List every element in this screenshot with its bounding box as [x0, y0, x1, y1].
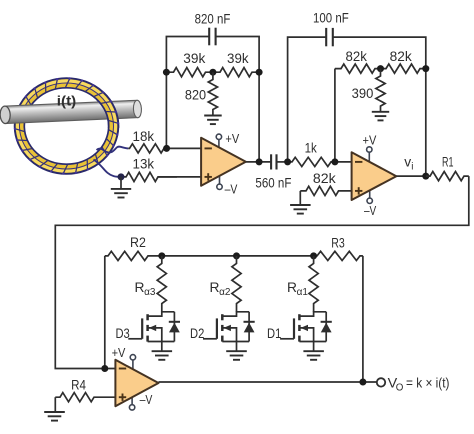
node: op3 inverting input	[101, 365, 108, 372]
op-amp U3 (output amplifier)	[115, 355, 158, 411]
resistor 820 (T-network shunt)	[208, 72, 217, 115]
svg-text:82k: 82k	[346, 49, 367, 64]
wire: box1 right vertical to op1 output node	[258, 72, 260, 162]
wire: op1 output to 560nF	[246, 161, 271, 163]
svg-text:–V: –V	[364, 203, 377, 218]
transistor D1 (MOSFET with body diode)	[280, 312, 332, 351]
resistor Rα1	[309, 256, 318, 312]
svg-text:82k: 82k	[313, 171, 336, 186]
resistor 18k	[128, 144, 166, 153]
node: output junction	[359, 379, 366, 386]
wire: op2 output to v_i node	[396, 175, 426, 177]
terminal: output Vo	[377, 378, 385, 386]
resistor R1	[426, 172, 469, 181]
wire: coil lead to 13k / ground node (blue)	[94, 160, 122, 177]
wire: coil lead to 18k (blue)	[97, 147, 129, 153]
node: op1 inverting input	[163, 145, 170, 152]
wire: box1 left vertical to op1 inverting node	[165, 72, 167, 148]
resistor Rα2	[232, 256, 241, 312]
op-amp U2 (second integrator)	[352, 147, 397, 204]
wire: op3 output rail	[159, 381, 377, 383]
svg-text:820: 820	[185, 87, 206, 102]
node: rail / Ra2	[233, 252, 240, 259]
svg-text:82k: 82k	[390, 49, 412, 64]
svg-text:R4: R4	[71, 378, 86, 393]
svg-text:α2: α2	[219, 287, 231, 298]
svg-text:820 nF: 820 nF	[195, 11, 231, 26]
svg-text:–V: –V	[225, 182, 238, 197]
node: T1 left	[163, 69, 170, 76]
svg-text:R3: R3	[331, 235, 345, 250]
svg-text:i: i	[411, 162, 413, 173]
wire: node to ground stub	[120, 177, 122, 189]
transistor D3 (MOSFET with body diode)	[128, 312, 180, 351]
svg-text:R2: R2	[130, 235, 146, 250]
ground (R4)	[44, 412, 65, 421]
svg-text:1k: 1k	[305, 141, 317, 156]
capacitor 100 nF	[326, 28, 333, 46]
node: 1k / 82k junction	[331, 158, 338, 165]
wire: R2 left leg down to op3 inverting node	[104, 256, 106, 369]
node: 13k / coil return / ground	[118, 173, 125, 180]
capacitor 820 nF	[209, 28, 215, 46]
wire: 1k node to op2 inverting input	[335, 161, 352, 163]
svg-text:+V: +V	[225, 131, 239, 146]
resistor 82k (T right)	[381, 64, 426, 73]
resistor R2	[105, 251, 162, 260]
capacitor 560 nF	[271, 154, 276, 169]
wire: R3 right leg down to output node	[362, 256, 364, 382]
op-amp U1 (first integrator)	[201, 134, 246, 189]
node: rail / Ra3	[158, 252, 165, 259]
svg-text:α3: α3	[144, 287, 156, 298]
ground (D3 source)	[152, 351, 173, 360]
svg-text:D2: D2	[190, 326, 204, 341]
wire: 560nF to 1k node	[277, 161, 288, 163]
ground (390 shunt)	[372, 112, 389, 121]
resistor R3	[314, 251, 363, 260]
resistor R4	[55, 393, 115, 402]
svg-text:13k: 13k	[133, 157, 155, 172]
svg-text:+V: +V	[363, 133, 377, 148]
svg-text:= k × i(t): = k × i(t)	[406, 376, 450, 391]
svg-text:560 nF: 560 nF	[255, 175, 291, 190]
node: op1 output	[256, 158, 263, 165]
wire: R4 to ground	[54, 397, 56, 412]
svg-text:390: 390	[352, 86, 374, 101]
wire: 100nF feedback box top rail	[288, 37, 327, 162]
svg-text:R: R	[135, 280, 145, 295]
resistor 82k (non-inverting bias)	[300, 186, 351, 195]
svg-text:α1: α1	[297, 287, 309, 298]
node v_i	[422, 173, 429, 180]
ground (op2 bias)	[290, 205, 311, 214]
svg-text:100 nF: 100 nF	[313, 10, 349, 25]
svg-text:39k: 39k	[183, 51, 205, 66]
svg-text:R1: R1	[442, 155, 454, 170]
svg-text:O: O	[396, 382, 404, 393]
ground (coil return)	[111, 189, 131, 198]
node: T2 middle	[377, 65, 384, 72]
resistor 39k (right)	[213, 68, 259, 77]
wire: 82k T left stub	[334, 69, 336, 162]
ground (D2 source)	[226, 351, 247, 360]
svg-text:+V: +V	[112, 345, 126, 360]
svg-text:39k: 39k	[227, 51, 249, 66]
wire: box2 right vertical to v_i node	[425, 69, 427, 177]
ground (D1 source)	[303, 351, 324, 360]
svg-text:D3: D3	[115, 326, 130, 341]
node: rail / Ra1 / R3	[310, 252, 317, 259]
ground (820 shunt)	[204, 116, 222, 125]
wire: 18k node to op1 inverting input	[167, 147, 202, 149]
node: T2 right	[422, 65, 429, 72]
transistor D2 (MOSFET with body diode)	[203, 312, 255, 351]
resistor 13k	[121, 172, 177, 181]
resistor 39k (left)	[166, 68, 213, 77]
node: T1 middle	[209, 69, 216, 76]
resistor 82k (T left)	[335, 64, 381, 73]
node: 560nF output	[284, 158, 291, 165]
resistor 1k	[288, 157, 335, 166]
svg-text:R: R	[287, 280, 297, 295]
wire: 820nF feedback box top rail	[166, 37, 209, 73]
svg-text:18k: 18k	[133, 129, 155, 144]
svg-text:D1: D1	[267, 326, 281, 341]
node: T1 right	[256, 69, 263, 76]
wire: summing rail	[162, 255, 314, 257]
svg-text:i(t): i(t)	[57, 94, 76, 109]
resistor 390 (T-network shunt)	[376, 69, 385, 112]
wire: 13k to op1 non-inverting input	[158, 176, 201, 178]
Rogowski coil sensor with conductor rod i(t)	[0, 77, 142, 174]
svg-text:–V: –V	[140, 392, 153, 407]
svg-text:R: R	[210, 280, 220, 295]
resistor Rα3	[157, 256, 166, 312]
wire: R1 down, bottom rail, left rail to op3 input	[55, 176, 469, 368]
wire: 82k to ground	[299, 191, 301, 205]
